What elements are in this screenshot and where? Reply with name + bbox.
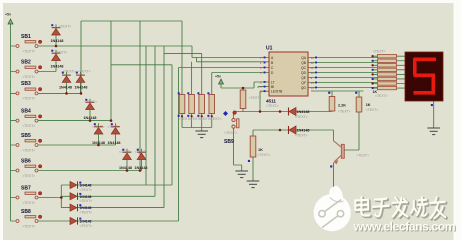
svg-text:1N4148: 1N4148 — [51, 39, 64, 43]
svg-text:QD: QD — [301, 71, 307, 75]
svg-text:QE: QE — [301, 76, 307, 80]
svg-text:<TEXT>: <TEXT> — [55, 51, 68, 55]
svg-text:<TEXT>: <TEXT> — [119, 150, 132, 154]
svg-text:<TEXT>: <TEXT> — [366, 108, 379, 112]
svg-text:SB4: SB4 — [21, 108, 31, 114]
svg-text:<TEXT>: <TEXT> — [295, 134, 308, 138]
svg-text:1N4148: 1N4148 — [108, 141, 121, 145]
svg-text:<TEXT>: <TEXT> — [209, 117, 222, 121]
svg-text:<TEXT>: <TEXT> — [356, 153, 369, 157]
svg-text:<TEXT>: <TEXT> — [23, 201, 36, 205]
svg-text:U1: U1 — [266, 46, 273, 52]
svg-text:SB8: SB8 — [21, 209, 31, 215]
svg-text:<TEXT>: <TEXT> — [92, 125, 105, 129]
svg-text:SB1: SB1 — [21, 34, 31, 40]
svg-text:<TEXT>: <TEXT> — [23, 49, 36, 53]
svg-text:QF: QF — [301, 81, 306, 85]
svg-text:<TEXT>: <TEXT> — [373, 50, 386, 54]
svg-text:BI: BI — [271, 85, 274, 89]
svg-text:14: 14 — [311, 86, 315, 90]
svg-text:<TEXT>: <TEXT> — [266, 104, 279, 108]
svg-text:<TEXT>: <TEXT> — [63, 70, 76, 74]
svg-text:QB: QB — [301, 61, 307, 65]
svg-text:+5v: +5v — [215, 75, 221, 79]
svg-text:<TEXT>: <TEXT> — [224, 131, 237, 135]
svg-text:1K: 1K — [258, 148, 263, 152]
svg-text:SB6: SB6 — [21, 158, 31, 164]
svg-text:<TEXT>: <TEXT> — [108, 125, 121, 129]
svg-text:LT: LT — [271, 80, 275, 84]
svg-text:4511: 4511 — [266, 98, 276, 103]
svg-text:<TEXT>: <TEXT> — [23, 75, 36, 79]
svg-text:<TEXT>: <TEXT> — [135, 150, 148, 154]
svg-text:SB7: SB7 — [21, 185, 31, 191]
svg-text:SB3: SB3 — [21, 81, 31, 87]
svg-text:10: 10 — [311, 71, 315, 75]
svg-text:<TEXT>: <TEXT> — [23, 148, 36, 152]
svg-text:15: 15 — [311, 81, 315, 85]
svg-text:QG: QG — [301, 86, 307, 90]
svg-text:<TEXT>: <TEXT> — [59, 25, 72, 29]
svg-text:<TEXT>: <TEXT> — [78, 70, 91, 74]
svg-text:11: 11 — [311, 66, 314, 70]
svg-text:SB9: SB9 — [224, 139, 234, 145]
svg-text:1N4148: 1N4148 — [297, 129, 310, 133]
svg-text:QA: QA — [301, 56, 307, 60]
svg-text:1N4148: 1N4148 — [51, 65, 64, 69]
svg-text:1N4148: 1N4148 — [297, 110, 310, 114]
svg-text:SB5: SB5 — [21, 133, 31, 139]
svg-text:2.2K: 2.2K — [338, 104, 346, 108]
svg-text:1N4148: 1N4148 — [119, 166, 132, 170]
svg-text:<TEXT>: <TEXT> — [80, 188, 93, 192]
svg-text:<TEXT>: <TEXT> — [338, 110, 351, 114]
svg-text:<TEXT>: <TEXT> — [23, 97, 36, 101]
svg-text:<TEXT>: <TEXT> — [84, 100, 97, 104]
svg-text:12: 12 — [311, 61, 315, 65]
svg-text:LE/STB: LE/STB — [271, 90, 283, 94]
svg-text:<TEXT>: <TEXT> — [80, 199, 93, 203]
svg-text:<TEXT>: <TEXT> — [257, 153, 270, 157]
svg-text:1N4148: 1N4148 — [59, 86, 72, 90]
svg-text:<TEXT>: <TEXT> — [375, 94, 388, 98]
svg-text:1N4148: 1N4148 — [135, 166, 148, 170]
svg-text:13: 13 — [311, 56, 315, 60]
svg-text:<TEXT>: <TEXT> — [249, 96, 262, 100]
svg-text:<TEXT>: <TEXT> — [80, 224, 93, 228]
svg-text:<TEXT>: <TEXT> — [23, 224, 36, 228]
svg-text:<TEXT>: <TEXT> — [80, 210, 93, 214]
svg-text:1N4148: 1N4148 — [75, 86, 88, 90]
svg-text:<TEXT>: <TEXT> — [295, 115, 308, 119]
svg-text:QC: QC — [301, 66, 307, 70]
svg-text:1K: 1K — [366, 103, 371, 107]
svg-text:+5v: +5v — [5, 12, 11, 16]
svg-text:<TEXT>: <TEXT> — [23, 174, 36, 178]
svg-text:www.elecfans.com: www.elecfans.com — [353, 219, 456, 233]
svg-text:SB2: SB2 — [21, 59, 31, 65]
svg-text:<TEXT>: <TEXT> — [23, 124, 36, 128]
